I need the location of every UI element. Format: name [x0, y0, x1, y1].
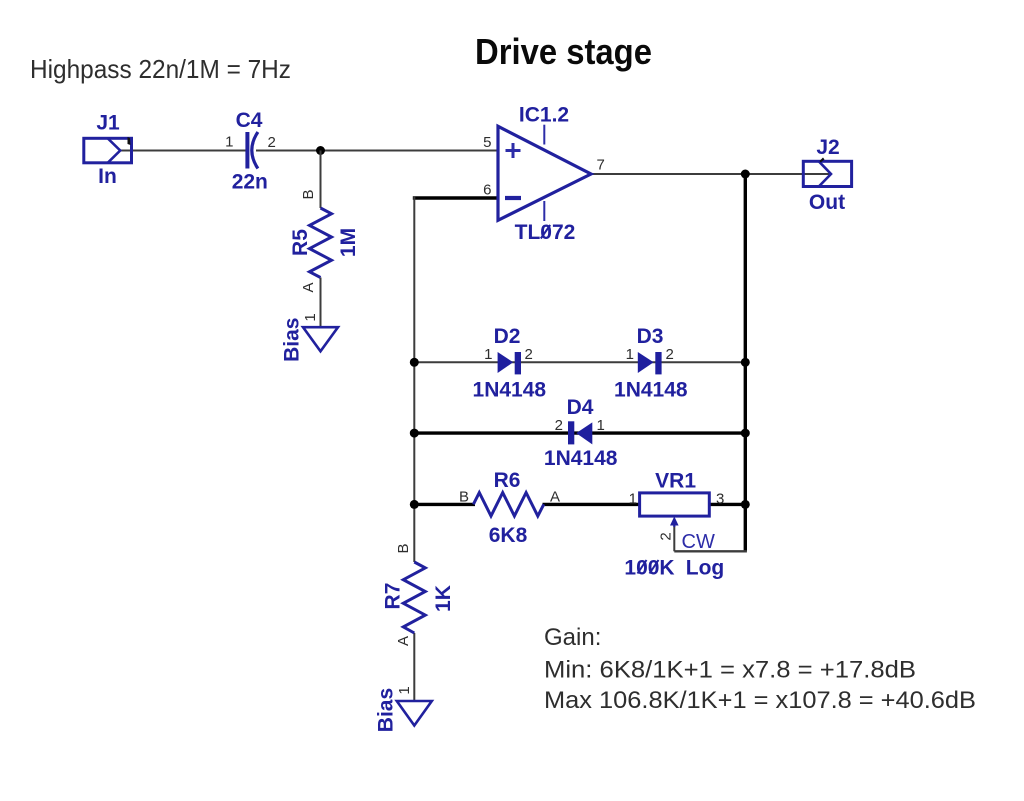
svg-text:3: 3 [716, 491, 724, 508]
node: junction right rail / D3 row [741, 358, 750, 367]
slash of zero in TL072 [541, 225, 550, 239]
wire: R7 bottom to Bias symbol [413, 633, 415, 701]
potentiometer VR1 [640, 493, 710, 516]
svg-text:6: 6 [483, 182, 491, 199]
svg-text:22n: 22n [232, 171, 268, 194]
svg-text:Out: Out [809, 191, 845, 214]
svg-text:A: A [395, 636, 412, 646]
diode D3 [638, 352, 662, 374]
slashes of zeros in 100K [638, 560, 647, 574]
svg-text:J1: J1 [96, 112, 120, 135]
svg-text:2: 2 [666, 346, 674, 363]
supply symbol Bias (left) [303, 327, 338, 351]
svg-text:Min: 6K8/1K+1 = x7.8 = +17.8dB: Min: 6K8/1K+1 = x7.8 = +17.8dB [544, 657, 916, 684]
svg-text:D4: D4 [567, 396, 594, 419]
svg-text:D3: D3 [637, 325, 664, 348]
svg-text:Gain:: Gain: [544, 624, 601, 651]
op-amp plus input marker [506, 143, 521, 158]
svg-text:B: B [300, 189, 317, 199]
wire: VR1 wiper pin2 down [673, 524, 675, 551]
capacitor C4 [247, 132, 258, 169]
svg-text:100K: 100K [624, 557, 674, 580]
diode D4 [568, 421, 592, 444]
svg-text:1M: 1M [337, 228, 360, 257]
svg-text:R6: R6 [494, 469, 521, 492]
svg-text:2: 2 [555, 417, 563, 434]
op-amp power stub top [543, 125, 545, 145]
svg-text:A: A [300, 282, 317, 292]
svg-text:B: B [459, 489, 469, 506]
svg-text:2: 2 [525, 346, 533, 363]
wire: left rail vertical (pin6 corner down to R7) [413, 196, 415, 562]
svg-text:1N4148: 1N4148 [614, 379, 688, 402]
svg-text:1: 1 [597, 417, 605, 434]
node: junction left rail / R6 row [410, 500, 419, 509]
svg-text:Bias: Bias [374, 688, 397, 732]
supply symbol Bias (bottom) [397, 701, 432, 726]
svg-text:1N4148: 1N4148 [473, 379, 547, 402]
svg-text:6K8: 6K8 [489, 524, 528, 547]
svg-text:In: In [98, 165, 117, 188]
svg-text:2: 2 [658, 532, 675, 540]
svg-text:2: 2 [268, 134, 276, 151]
wire: CW loop bottom [674, 550, 747, 552]
svg-text:Bias: Bias [280, 318, 303, 362]
connector J1 [84, 138, 132, 163]
svg-text:5: 5 [483, 134, 491, 151]
wire: R5 bottom to Bias symbol [320, 278, 322, 328]
svg-text:1N4148: 1N4148 [544, 447, 618, 470]
svg-text:B: B [395, 543, 412, 553]
wire: op-amp pin7 output to J2 [591, 173, 829, 175]
svg-text:IC1.2: IC1.2 [519, 104, 569, 127]
wire: J1 to C4 pin1 [121, 150, 246, 152]
svg-text:R7: R7 [382, 583, 405, 610]
svg-text:1: 1 [629, 491, 637, 508]
wire: R6 row thick left segment [414, 503, 475, 506]
diode D2 [498, 352, 521, 374]
resistor R5 [310, 208, 332, 278]
svg-text:1: 1 [225, 134, 233, 151]
svg-text:1: 1 [626, 346, 634, 363]
wire: D2/D3 row thin [414, 361, 745, 363]
wire: right rail vertical thick [744, 174, 747, 551]
wire: junction down to R5 [320, 151, 322, 209]
op-amp IC1.2 [498, 126, 591, 220]
node: junction output row / right rail [741, 170, 750, 179]
svg-text:J2: J2 [816, 136, 839, 159]
op-amp minus input marker [505, 196, 521, 200]
wire: C4 pin2 to op-amp pin5 [256, 150, 498, 152]
svg-text:1: 1 [484, 346, 492, 363]
wire: thick feedback from op-amp pin6 to left rail [413, 196, 498, 199]
resistor R7 [403, 562, 425, 633]
wire: D4 row thick [414, 431, 745, 434]
svg-text:A: A [550, 489, 560, 506]
wiper arrow of VR1 [671, 518, 678, 528]
svg-text:Log: Log [686, 557, 724, 580]
svg-text:7: 7 [597, 157, 605, 174]
pin 1 mark of J1 [128, 137, 131, 145]
pin 1 mark of J2 [820, 158, 825, 163]
node: junction left rail / D2 row [410, 358, 419, 367]
node: junction right rail / D4 row [741, 429, 750, 438]
svg-text:Drive stage: Drive stage [475, 31, 652, 72]
svg-text:1K: 1K [432, 585, 455, 612]
wire: VR1 pin3 to right rail thick [709, 503, 745, 506]
svg-text:CW: CW [682, 531, 715, 553]
svg-text:VR1: VR1 [655, 470, 696, 493]
node: junction left rail / D4 row [410, 429, 419, 438]
svg-text:D2: D2 [494, 325, 521, 348]
resistor R6 [473, 493, 543, 516]
svg-text:1: 1 [302, 313, 319, 321]
node: junction at C4 output / R5 top [316, 146, 325, 155]
wire: R6 to VR1 pin1 thick [543, 503, 640, 506]
op-amp power stub bottom [543, 201, 545, 221]
svg-text:1: 1 [396, 686, 413, 694]
node: junction right rail / VR1 pin3 [741, 500, 750, 509]
svg-text:R5: R5 [289, 229, 312, 256]
connector J2 [803, 161, 851, 186]
svg-text:Highpass 22n/1M = 7Hz: Highpass 22n/1M = 7Hz [30, 54, 291, 84]
svg-text:Max 106.8K/1K+1 = x107.8 = +40: Max 106.8K/1K+1 = x107.8 = +40.6dB [544, 687, 976, 714]
svg-text:C4: C4 [236, 109, 263, 132]
